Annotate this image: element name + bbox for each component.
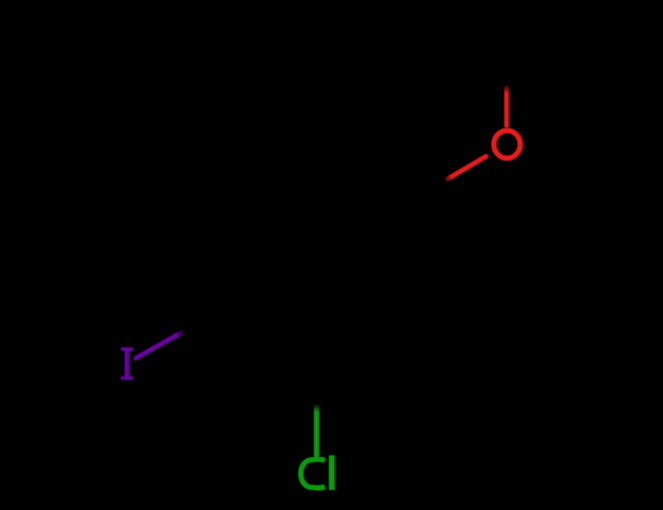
benzene ring bond C6-C1 (lower-right edge, black on black) (317, 308, 408, 361)
benzene ring bond C3-C4 (top-left edge, black on black) (225, 150, 316, 203)
bond C6-Cl (ring to chlorine, black half fading to green half) (314, 361, 319, 456)
atom label Cl (chlorine, green C arc plus l bar) (301, 455, 335, 490)
benzene ring bond C1-C2 (right edge, black on black) (405, 203, 410, 308)
bond C5-I (ring to iodine, black half fading to purple half) (136, 308, 226, 358)
benzene ring bond C4-C5 (left edge, black on black) (223, 203, 228, 308)
benzene ring bond C5-C6 (lower-left edge, black on black) (225, 308, 316, 361)
atom label O (methoxy oxygen, red ring glyph) (494, 131, 520, 159)
benzene ring bond C2-C3 (top-right edge, black on black) (317, 150, 408, 203)
bond O-CH3 (oxygen to methyl carbon, red half fading up to black half) (504, 52, 509, 126)
atom label I (iodine, purple serif capital I) (121, 347, 133, 379)
bond C2-O (ring to methoxy oxygen, black half fading to red half) (408, 156, 486, 202)
